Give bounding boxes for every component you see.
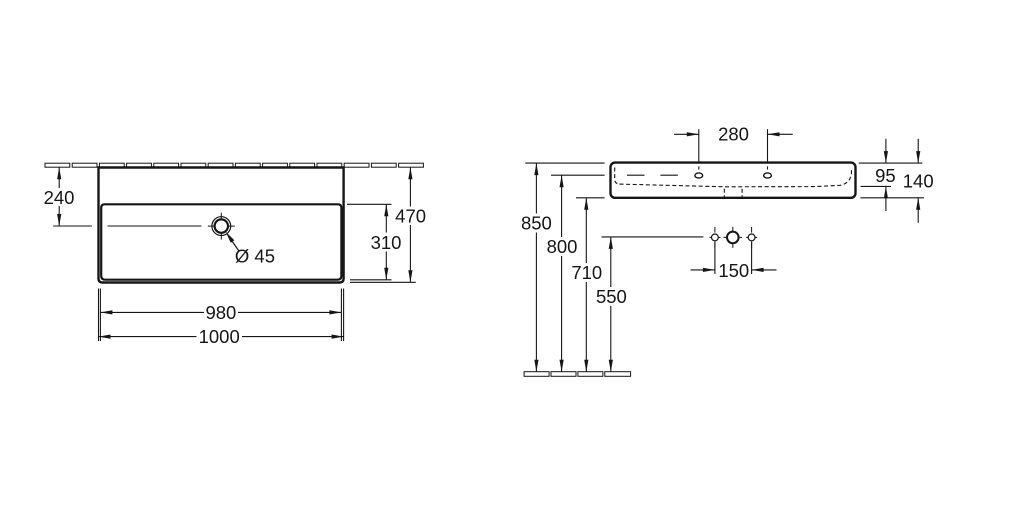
dimension 980 (bowl width) [100, 289, 341, 342]
dimension 240 (wall to drain centre) [53, 167, 92, 226]
dimension 550 (fixing holes height) [610, 237, 612, 372]
drain centre line [108, 225, 202, 227]
svg-text:470: 470 [395, 206, 426, 227]
hidden drain (dashed) [723, 189, 725, 197]
left extension lines [525, 163, 703, 237]
fixing hole right [748, 234, 755, 241]
dimension 310 (bowl depth) [347, 204, 392, 279]
svg-text:310: 310 [371, 232, 402, 253]
basin body (side profile) [611, 163, 856, 198]
svg-text:980: 980 [205, 302, 236, 323]
drain centre marks [208, 213, 235, 240]
dimension 1000 (overall width) [99, 289, 344, 342]
fixing hole left [712, 234, 719, 241]
basin inner bowl (plan) [101, 204, 341, 279]
floor hatch (tiled floor line) [524, 372, 631, 377]
tap-hole centre line (long dashes) [627, 174, 645, 176]
leader arrow to drain [226, 232, 235, 243]
svg-text:Ø 45: Ø 45 [235, 246, 275, 267]
dimension 150 (fixing hole spacing) [691, 242, 777, 275]
svg-text:150: 150 [718, 260, 749, 281]
wall hatch (tiled wall line, plan view) [45, 163, 423, 167]
svg-text:710: 710 [571, 262, 602, 283]
svg-text:95: 95 [875, 165, 896, 186]
right extension lines [859, 163, 924, 198]
dimension 850 (rim height) [535, 163, 537, 372]
svg-text:140: 140 [903, 171, 934, 192]
drain hole (inner circle) [215, 219, 228, 232]
svg-text:800: 800 [547, 236, 578, 257]
svg-text:280: 280 [718, 124, 749, 145]
siphon hole centre [727, 232, 739, 244]
dimension 140 (body height) [917, 139, 919, 163]
dimension 470 (overall depth) [350, 167, 416, 282]
basin outer rim (plan) [99, 168, 344, 283]
dimension 710 (body underside height) [585, 198, 587, 372]
svg-text:850: 850 [521, 213, 552, 234]
svg-text:550: 550 [596, 286, 627, 307]
dimension 280 (tap hole spacing) [674, 129, 793, 169]
drain hole (outer circle) [212, 217, 231, 236]
dimension 800 (tap hole height) [561, 175, 563, 372]
hidden bowl outline (dashed), bottom [620, 168, 852, 187]
hidden bowl outline (dashed), left drop [615, 168, 620, 185]
svg-text:240: 240 [44, 187, 75, 208]
svg-text:1000: 1000 [199, 326, 240, 347]
dimension 95 (rim to bowl bottom) [885, 139, 887, 163]
tap hole left (side view) [695, 173, 703, 178]
tap hole right (side view) [764, 173, 772, 178]
